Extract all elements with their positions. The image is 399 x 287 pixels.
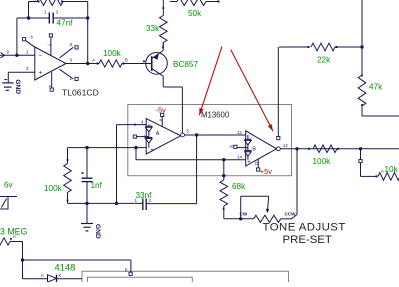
svg-text:1nf: 1nf [91,181,103,190]
svg-text:GND: GND [94,224,101,239]
svg-text:PRE-SET: PRE-SET [283,234,332,246]
svg-text:16: 16 [229,143,234,148]
svg-text:47nf: 47nf [57,19,74,28]
svg-text:B: B [125,268,128,273]
svg-text:B: B [252,146,256,152]
svg-text:13: 13 [237,130,242,135]
svg-text:A: A [33,0,36,2]
svg-text:+: + [247,160,251,166]
svg-text:TONE ADJUST: TONE ADJUST [263,222,346,234]
svg-text:68k: 68k [232,182,246,191]
svg-text:BC857: BC857 [173,60,198,69]
svg-text:+5v: +5v [260,167,272,176]
svg-text:-5v: -5v [156,107,166,115]
svg-text:100k: 100k [313,157,332,166]
svg-text:GND: GND [14,79,21,94]
svg-text:A: A [41,273,44,278]
svg-text:10k: 10k [385,165,399,174]
svg-text:K: K [59,273,62,278]
svg-text:+: + [150,148,154,154]
svg-text:4148: 4148 [55,262,76,273]
svg-text:CW: CW [240,211,248,216]
svg-text:−: − [39,53,43,60]
svg-text:A: A [156,131,160,137]
svg-text:+: + [39,70,43,77]
svg-text:6v: 6v [4,180,12,189]
svg-text:M13600: M13600 [201,110,230,119]
svg-text:14: 14 [237,155,242,160]
svg-text:CCW: CCW [285,211,297,216]
svg-text:22k: 22k [317,56,331,65]
svg-text:12: 12 [283,143,288,148]
svg-text:33nf: 33nf [136,191,153,200]
svg-text:33k: 33k [146,24,160,33]
svg-text:50k: 50k [188,9,202,18]
svg-text:100k: 100k [44,184,63,193]
svg-text:A: A [13,234,16,239]
svg-text:A: A [92,58,95,63]
svg-text:TL061CD: TL061CD [62,88,99,98]
svg-text:100k: 100k [103,49,122,58]
svg-text:47k: 47k [369,83,383,92]
svg-text:B: B [125,58,128,63]
